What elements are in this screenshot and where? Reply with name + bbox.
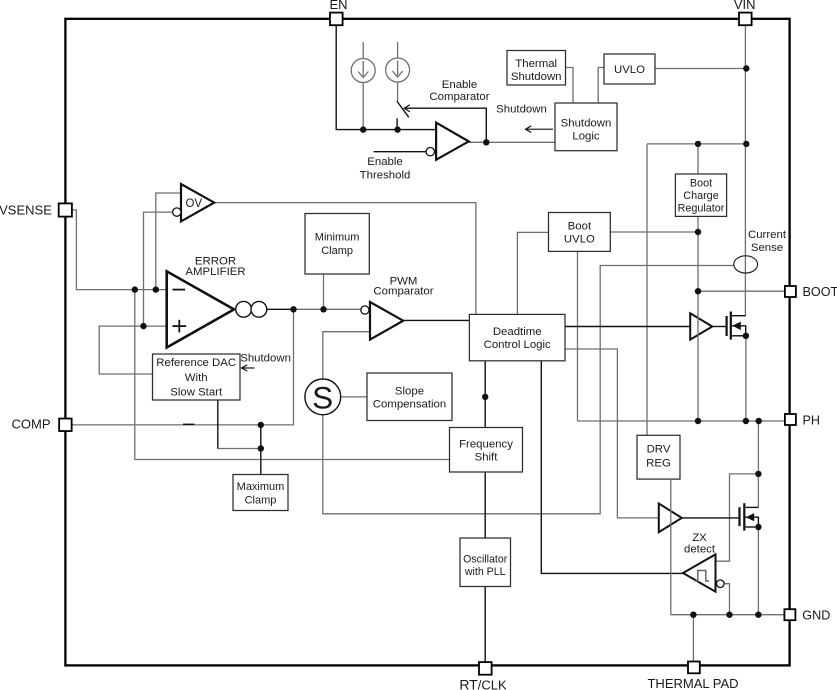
svg-text:EN: EN	[329, 0, 347, 12]
svg-text:Reference DAC: Reference DAC	[156, 357, 236, 369]
svg-text:Regulator: Regulator	[678, 203, 725, 215]
svg-text:Comparator: Comparator	[373, 286, 433, 298]
svg-text:Frequency: Frequency	[459, 439, 513, 451]
svg-text:DRV: DRV	[647, 443, 671, 455]
svg-text:Boot: Boot	[568, 221, 592, 233]
svg-text:Boot: Boot	[690, 178, 712, 190]
svg-text:Compensation: Compensation	[373, 399, 446, 411]
svg-text:Oscillator: Oscillator	[463, 554, 508, 566]
svg-text:Slope: Slope	[395, 385, 424, 397]
svg-text:Thermal: Thermal	[515, 58, 557, 70]
svg-text:RT/CLK: RT/CLK	[459, 676, 507, 690]
svg-text:AMPLIFIER: AMPLIFIER	[185, 266, 245, 278]
svg-text:Enable: Enable	[367, 156, 402, 168]
svg-text:REG: REG	[646, 457, 671, 469]
svg-text:With: With	[185, 372, 208, 384]
svg-text:Clamp: Clamp	[321, 245, 353, 257]
svg-text:PH: PH	[803, 413, 821, 427]
svg-text:Maximum: Maximum	[237, 481, 285, 493]
svg-text:Charge: Charge	[683, 190, 718, 202]
svg-text:with PLL: with PLL	[464, 566, 506, 578]
svg-text:Shutdown: Shutdown	[240, 353, 291, 365]
svg-text:Shift: Shift	[475, 452, 499, 464]
svg-text:Deadtime: Deadtime	[493, 326, 542, 338]
svg-text:UVLO: UVLO	[614, 64, 645, 76]
svg-text:ZX: ZX	[692, 532, 707, 544]
svg-text:Minimum: Minimum	[315, 232, 360, 244]
svg-text:BOOT: BOOT	[803, 285, 837, 299]
svg-text:OV: OV	[185, 198, 202, 210]
svg-text:Control Logic: Control Logic	[484, 339, 551, 351]
svg-text:Comparator: Comparator	[429, 91, 489, 103]
svg-text:Sense: Sense	[751, 242, 783, 254]
svg-text:GND: GND	[802, 609, 830, 623]
svg-text:Clamp: Clamp	[245, 495, 277, 507]
svg-text:COMP: COMP	[12, 417, 51, 432]
svg-text:Threshold: Threshold	[360, 170, 411, 182]
svg-text:Logic: Logic	[572, 131, 600, 143]
svg-text:Current: Current	[748, 229, 787, 241]
svg-text:UVLO: UVLO	[564, 234, 595, 246]
svg-text:Shutdown: Shutdown	[561, 118, 612, 130]
svg-text:detect: detect	[684, 544, 716, 556]
svg-text:VSENSE: VSENSE	[0, 203, 52, 218]
svg-text:S: S	[312, 380, 333, 416]
svg-text:VIN: VIN	[734, 0, 756, 12]
svg-text:Shutdown: Shutdown	[511, 71, 562, 83]
svg-text:Enable: Enable	[442, 79, 477, 91]
svg-text:Shutdown: Shutdown	[496, 104, 547, 116]
svg-text:THERMAL PAD: THERMAL PAD	[647, 676, 738, 690]
svg-text:Slow Start: Slow Start	[170, 387, 223, 399]
